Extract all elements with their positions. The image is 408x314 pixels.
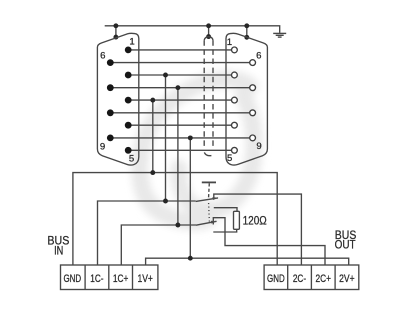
wire pin1 row: [128, 49, 231, 51]
svg-text:1V+: 1V+: [137, 273, 153, 285]
node dot 1C- tap: [163, 199, 168, 204]
svg-text:6: 6: [256, 50, 261, 61]
node dot tap7 top: [175, 85, 180, 90]
node dot tap2 top: [163, 73, 168, 78]
shield neck curve: [204, 37, 213, 41]
wire pin6 row: [110, 62, 249, 64]
node junction dot bus-shield: [206, 23, 211, 28]
connector X2 pins 6-9: [250, 60, 256, 141]
wire GND net: [73, 173, 277, 265]
svg-text:2C-: 2C-: [293, 273, 307, 285]
svg-text:OUT: OUT: [335, 238, 356, 251]
shield dashed line left: [203, 40, 205, 146]
svg-text:GND: GND: [267, 273, 285, 285]
wire pin4 row: [128, 124, 231, 126]
switch S2 contact bracket to 2C+: [213, 218, 325, 265]
node dot V+ tap: [188, 256, 193, 261]
node dot shield neck: [206, 34, 211, 39]
svg-text:1C-: 1C-: [90, 273, 104, 285]
connector X2 shell (right, female DB9): [226, 33, 267, 165]
svg-text:9: 9: [256, 141, 261, 152]
svg-text:IN: IN: [54, 244, 63, 257]
wire V+ net 1V+ to 2V+: [146, 258, 349, 265]
wire tap pin3 to GND: [152, 100, 154, 173]
switch S1 arm: [196, 198, 218, 202]
node dot on left shell edge: [113, 35, 118, 40]
wire 1C+ net: [121, 225, 196, 265]
svg-text:1C+: 1C+: [113, 273, 129, 285]
svg-text:120Ω: 120Ω: [243, 214, 267, 228]
node dot tap3 top: [150, 98, 155, 103]
switch actuator dashed link upper: [208, 183, 211, 199]
svg-text:9: 9: [100, 142, 105, 153]
svg-text:6: 6: [100, 51, 105, 62]
wire tap pin9 to V+: [189, 138, 191, 258]
terminal block X3 BUS IN: [61, 265, 158, 290]
node dot on right shell edge: [244, 35, 249, 40]
node dot tap9 top: [188, 135, 193, 140]
ground earth symbol: [273, 33, 286, 37]
wire resistor bottom: [213, 229, 236, 232]
connector X2 pins 1-5: [232, 47, 238, 153]
resistor R1 120R body: [234, 211, 240, 229]
wire pin3 row: [128, 99, 231, 101]
wire S1 lower contact to resistor top: [214, 208, 237, 212]
wire pin5 row: [128, 149, 231, 151]
switch S2 arm: [196, 221, 217, 225]
wire pin8 row: [110, 112, 249, 114]
connector X1 pins 6-9: [107, 59, 114, 141]
wire stub shield to bus: [208, 26, 210, 37]
switch S1 arm arrowhead: [212, 197, 218, 200]
node junction dot bus-right-shell: [244, 23, 249, 28]
shield bottom curve: [204, 152, 211, 155]
terminal block X4 BUS OUT: [264, 265, 359, 290]
wire tap pin7 to 1C+: [177, 88, 179, 225]
wire pin2 row: [128, 74, 231, 76]
node junction dot bus-left-shell: [113, 23, 118, 28]
wire 1C- net: [98, 201, 196, 265]
wire top ground bus: [105, 26, 280, 33]
wire pin7 row: [110, 87, 249, 89]
svg-text:2C+: 2C+: [315, 273, 331, 285]
wire tap pin2 to 1C-: [165, 75, 167, 201]
switch actuator dotted link lower: [208, 203, 211, 222]
svg-text:1: 1: [227, 37, 232, 48]
switch actuator bar: [202, 181, 216, 183]
svg-text:5: 5: [129, 153, 134, 164]
svg-text:5: 5: [227, 153, 232, 164]
wire stub right shell to bus: [246, 26, 248, 38]
switch S2 arm arrowhead: [211, 221, 217, 224]
node dot 1C+ tap: [175, 223, 180, 228]
wire pin9 row: [110, 137, 249, 139]
svg-text:2V+: 2V+: [339, 273, 355, 285]
svg-text:1: 1: [129, 36, 134, 47]
connector X1 shell (left, male DB9): [97, 33, 138, 165]
shield dashed line right: [212, 40, 214, 147]
switch S1 contact to 2C-: [214, 194, 302, 265]
wire stub left shell to bus: [115, 26, 117, 37]
node dot GND-shield tap: [150, 170, 155, 175]
svg-text:GND: GND: [63, 273, 81, 285]
connector X1 pins 1-5: [125, 47, 132, 154]
